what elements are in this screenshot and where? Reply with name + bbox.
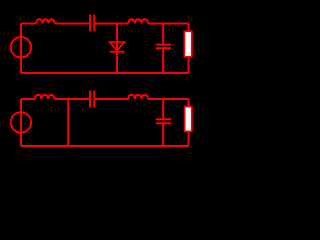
inductor L4 [128, 95, 148, 99]
bottom circuit: left vertical wire (through source) [20, 99, 22, 146]
resistor R1 (load) [184, 31, 191, 57]
wire right vertical bottom [188, 58, 190, 74]
current source I1 [11, 37, 31, 57]
capacitor C4 (shunt) [156, 99, 171, 146]
wire right vertical bottom (bottom circuit) [188, 132, 190, 147]
resistor R2 (load) [185, 107, 192, 132]
inductor L2 [128, 19, 148, 23]
wire top rail segment 3 [95, 23, 128, 25]
capacitor C2 (shunt) [156, 24, 171, 74]
diode D1 (vertical branch with triangle and cathode bar) [110, 24, 125, 74]
wire top rail segment 4 (bottom circuit) [148, 98, 189, 100]
wire bottom rail (top circuit) [21, 72, 189, 74]
wire right vertical top (bottom circuit) [188, 99, 190, 107]
wire top rail segment 2 (bottom circuit) [55, 98, 90, 100]
inductor L3 [35, 95, 55, 99]
inductor L1 [36, 19, 54, 23]
capacitor C3 (series) [90, 91, 94, 108]
wire top rail segment 4 [148, 23, 189, 25]
wire top rail segment 3 (bottom circuit) [95, 98, 128, 100]
wire top rail segment 1 (bottom circuit) [21, 98, 35, 100]
top circuit: left vertical wire (through source) [20, 24, 22, 74]
wire top rail segment 2 [55, 23, 90, 25]
capacitor C1 (series) [90, 15, 94, 32]
wire shunt vertical (replaces diode) [67, 99, 69, 146]
current source I2 [11, 112, 31, 132]
wire right vertical top [188, 24, 190, 32]
wire bottom rail (bottom circuit) [21, 145, 189, 147]
wire top rail segment 1 [21, 23, 36, 25]
